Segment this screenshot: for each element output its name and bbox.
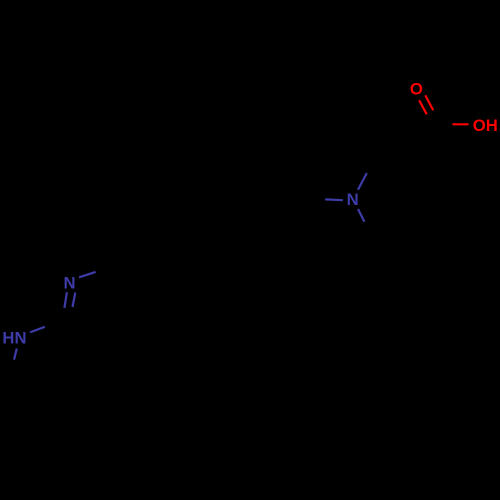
svg-text:OH: OH bbox=[473, 116, 498, 135]
bond C=N double bond line 2 bbox=[73, 293, 76, 308]
bond C=O double bond line 1 bbox=[419, 100, 427, 114]
svg-text:O: O bbox=[410, 80, 423, 99]
bond HN-C lower stub bbox=[14, 349, 17, 360]
bond N-C upper right stub bbox=[358, 173, 367, 190]
bond N-C upper right stub from imine N bbox=[79, 272, 96, 277]
bond HN-C upper right stub bbox=[30, 327, 45, 333]
svg-text:N: N bbox=[63, 273, 75, 292]
svg-text:HN: HN bbox=[2, 328, 26, 347]
bond C=O double bond line 2 bbox=[425, 95, 433, 110]
svg-text:N: N bbox=[347, 190, 359, 209]
bond C-OH bbox=[452, 123, 468, 125]
bond N-C left stub bbox=[325, 198, 343, 201]
bond C=N double bond line 1 bbox=[64, 292, 67, 308]
bond N-C lower right stub bbox=[358, 209, 364, 222]
